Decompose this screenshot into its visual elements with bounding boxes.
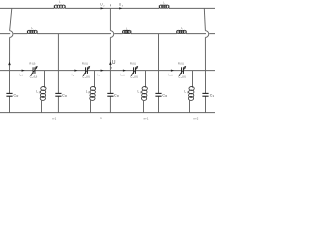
- svg-text:n: n: [99, 75, 100, 77]
- wire vertical branch node n+2 upper: [204, 8, 205, 30]
- svg-text:n+1: n+1: [121, 75, 124, 77]
- wire vertical branch node n upper: [109, 8, 111, 30]
- svg-text:n-1: n-1: [20, 75, 23, 77]
- varactor VC1 variable capacitor: [31, 66, 38, 76]
- label current before node n on R3: [98, 73, 100, 77]
- inductor L1 series on R1: [54, 5, 65, 8]
- svg-text:n: n: [73, 75, 74, 77]
- label L1: [59, 0, 61, 4]
- svg-text:L: L: [163, 0, 165, 4]
- wire crossover hop over R2 at branch n+2: [205, 31, 208, 38]
- svg-text:3: 3: [122, 6, 124, 8]
- label inductor Lp1: [36, 90, 41, 95]
- wire vertical branch node n-1 lower: [9, 37, 11, 112]
- inductor L2 series on R1: [159, 5, 169, 8]
- svg-text:b: b: [213, 95, 215, 98]
- svg-text:(U): (U): [32, 63, 36, 66]
- svg-text:(U): (U): [134, 74, 138, 78]
- wire crossover hop over R2 at branch n-1: [10, 31, 13, 38]
- inductor L5 series on R2: [177, 30, 187, 33]
- label current i cell 3: [120, 73, 124, 77]
- inductor Lp1 shunt coil to R4: [40, 71, 46, 113]
- label above varactor VC3: [130, 62, 136, 66]
- label current i cell 1: [19, 73, 23, 77]
- label L3: [32, 26, 34, 30]
- wire vertical branch node n lower: [109, 37, 111, 112]
- svg-text:2: 2: [103, 6, 105, 8]
- svg-text:L: L: [32, 26, 34, 30]
- node label n+2: [194, 116, 199, 120]
- arrow current into node n on R1: [101, 7, 104, 9]
- label below varactor VC1: [30, 74, 38, 79]
- varactor VC4 variable capacitor: [179, 66, 186, 76]
- svg-text:L: L: [126, 26, 128, 30]
- arrow current i on R3 cell 2: [74, 69, 77, 71]
- label above varactor VC2: [82, 62, 88, 66]
- arrow current i on R3 cell 1: [22, 69, 25, 71]
- label current i cell 4: [168, 73, 172, 77]
- arrow current out of node n on R1: [119, 7, 122, 9]
- label C5 value: [210, 93, 215, 98]
- label below varactor VC2: [82, 74, 90, 79]
- wire rail R3 varactor line: [0, 70, 215, 72]
- node label n+1: [144, 116, 149, 120]
- label C3 value C_R: [114, 93, 119, 98]
- label L5: [181, 26, 183, 30]
- wire rail R1 top conductor: [0, 7, 215, 9]
- svg-text:R: R: [117, 95, 119, 98]
- svg-text:R: R: [65, 95, 67, 98]
- wire vertical branch node n+2 lower: [204, 37, 206, 112]
- inductor Lp4 shunt coil to R4: [188, 71, 194, 113]
- capacitor C1 C_R shunt: [6, 93, 12, 96]
- wire crossover hop over R2 at branch n: [110, 31, 113, 38]
- svg-text:R: R: [17, 95, 19, 98]
- arrow voltage arrow U on branch n: [109, 62, 112, 65]
- capacitor C4 C_R shunt: [155, 93, 161, 96]
- label voltage U at node n: [112, 60, 116, 66]
- inductor Lp3 shunt coil to R4: [141, 71, 147, 113]
- label below varactor VC3: [130, 74, 138, 79]
- svg-text:R: R: [165, 95, 167, 98]
- svg-text:(U): (U): [182, 74, 186, 78]
- label L2: [163, 0, 165, 4]
- arrow current i on R3 cell 3: [123, 69, 126, 71]
- label inductor Lp2: [86, 90, 91, 95]
- label current above R1 left of node n: [100, 3, 105, 8]
- label C2 value C_R: [62, 93, 67, 98]
- label above varactor VC4: [178, 62, 184, 66]
- varactor VC2 variable capacitor: [83, 66, 90, 76]
- svg-text:U: U: [112, 60, 116, 66]
- label prime tick above R1 at node n: [109, 4, 111, 6]
- wire rail R4 bottom return conductor: [0, 112, 215, 114]
- capacitor C3 C_R shunt: [107, 93, 113, 96]
- arrow current i on R3 cell 4: [171, 69, 174, 71]
- svg-text:n+2: n+2: [194, 116, 199, 120]
- label C4 value C_R: [162, 93, 167, 98]
- capacitor C2 C_R shunt: [55, 93, 61, 96]
- inductor L4 series on R2: [123, 30, 132, 33]
- svg-text:n+1: n+1: [144, 116, 149, 120]
- label below varactor VC4: [178, 74, 186, 79]
- label current i cell 2: [72, 73, 74, 77]
- capacitor C5 load shunt: [202, 93, 208, 96]
- wire vertical branch node n-1 upper: [10, 8, 12, 30]
- wire vertical branch R2 to R4 at x58: [57, 34, 59, 113]
- label above varactor VC1: [29, 62, 35, 66]
- svg-text:(U): (U): [86, 74, 90, 78]
- inductor L3 series on R2: [27, 30, 37, 33]
- svg-text:n+1: n+1: [169, 75, 172, 77]
- node label n: [100, 116, 102, 120]
- svg-text:L: L: [181, 26, 183, 30]
- label inductor Lp4: [184, 90, 189, 95]
- arrow current into node n on R3: [101, 69, 104, 71]
- arrow voltage arrow on branch n-1: [8, 62, 11, 65]
- svg-text:(U): (U): [132, 63, 136, 66]
- svg-text:(U): (U): [180, 63, 184, 66]
- svg-text:n: n: [100, 116, 102, 120]
- label current above R1 right of node n: [119, 3, 124, 8]
- svg-text:(U): (U): [34, 74, 38, 78]
- inductor Lp2 shunt coil to R4: [90, 71, 96, 113]
- node label n-1: [52, 116, 56, 120]
- svg-text:(U): (U): [84, 63, 88, 66]
- wire rail R2 second conductor: [0, 33, 215, 35]
- label prime tick above R3 at node n: [110, 67, 112, 69]
- wire vertical branch R2 to R4 at x158: [158, 34, 160, 113]
- varactor VC3 variable capacitor: [131, 66, 138, 76]
- label C1 value C_R: [14, 93, 19, 98]
- label L4: [126, 26, 128, 30]
- label inductor Lp3: [138, 90, 143, 95]
- svg-text:L: L: [59, 0, 61, 4]
- svg-text:n-1: n-1: [52, 116, 56, 120]
